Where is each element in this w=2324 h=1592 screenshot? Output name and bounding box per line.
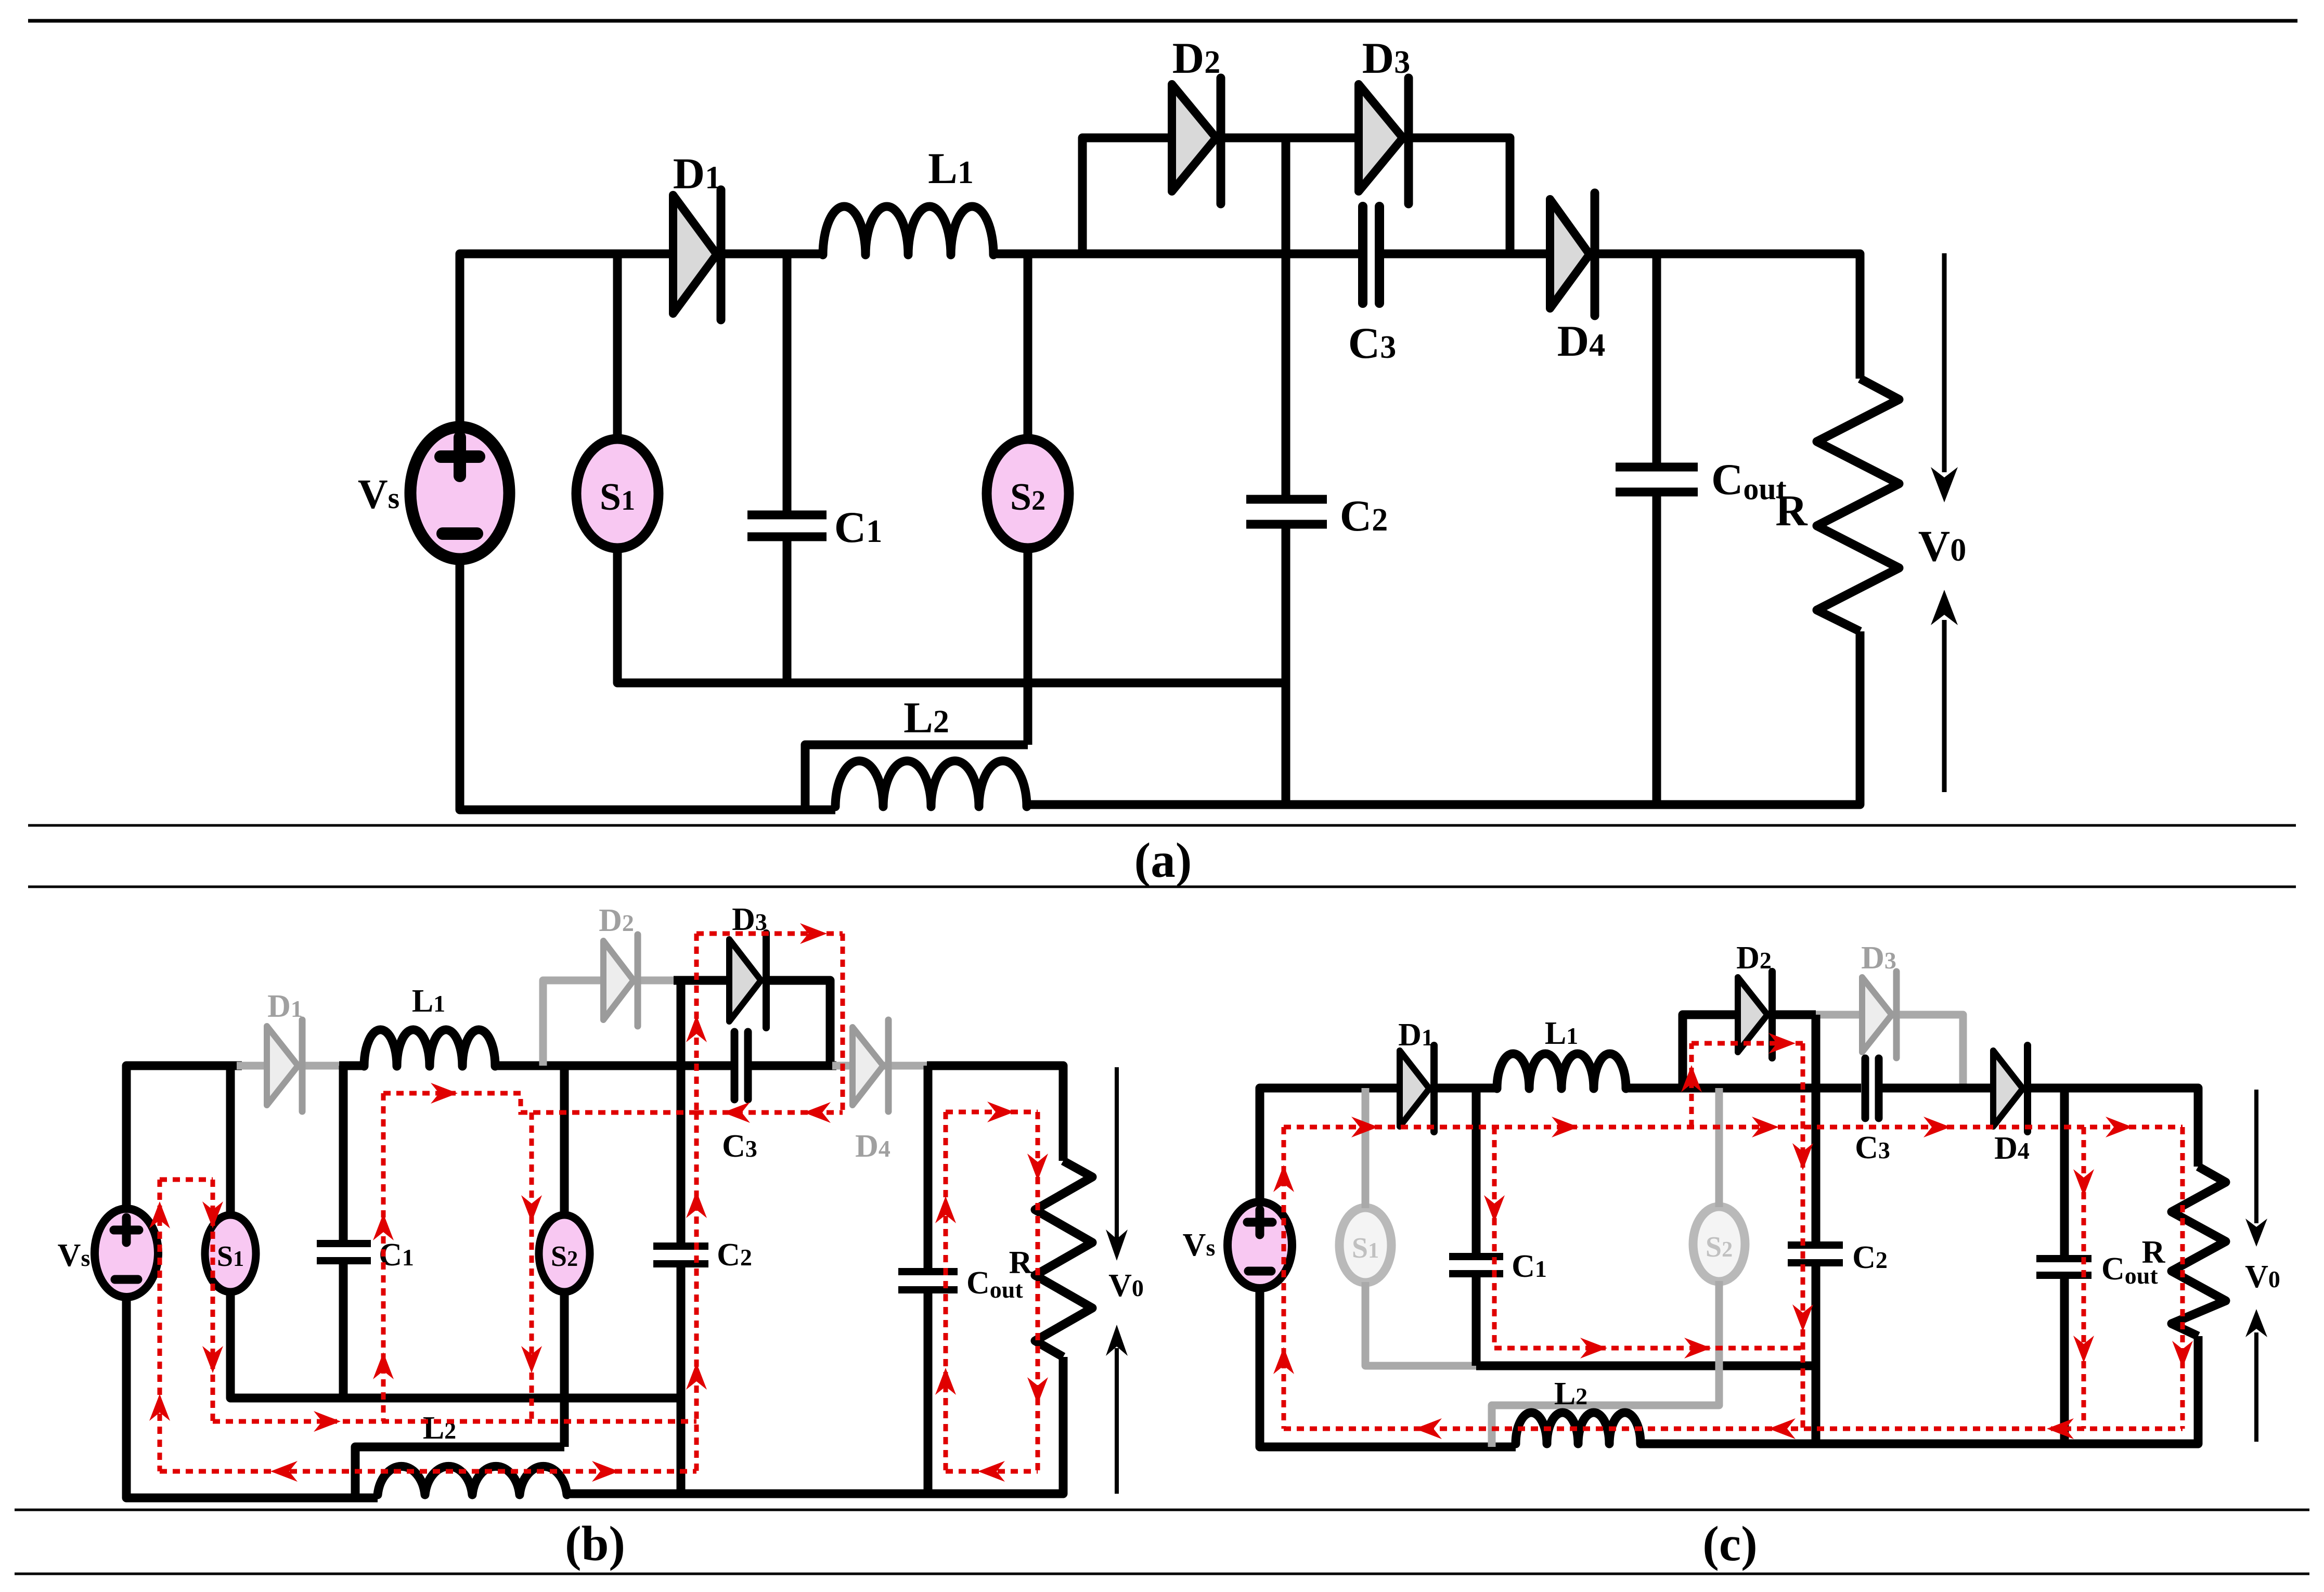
- red output loop left: [944, 1112, 948, 1471]
- red C2 vertical: [1801, 1043, 1805, 1429]
- source Vs: [410, 427, 509, 559]
- red arrow up on output left lower: [935, 1368, 956, 1395]
- wire: Vs bottom to bottom rail to L2 start: [126, 1297, 378, 1498]
- source Vs: [1228, 1202, 1292, 1288]
- red arrow up on D2 loop: [1681, 1065, 1702, 1092]
- wire: L1 end to C3 left plate (junctions S2, riser1, C2): [993, 250, 1362, 258]
- wire: upper rail D3 to riser2 down to main rail: [1409, 138, 1510, 254]
- red arrow up on main left lower: [1273, 1347, 1294, 1374]
- red arrow right under L1: [431, 1083, 458, 1104]
- red L1 return horizontal: [383, 1093, 696, 1112]
- arrow V0 up: [2245, 1309, 2267, 1442]
- red arrow left on main bottom 2: [1768, 1418, 1796, 1439]
- svg-text:(a): (a): [1134, 833, 1192, 888]
- red arrow down on Cout red upper: [2073, 1169, 2094, 1196]
- separator rule below b/c: [15, 1509, 2309, 1511]
- red D3 loop right vertical: [841, 934, 845, 1112]
- red output loop bottom: [946, 1469, 1038, 1474]
- wire: upper rail D3 to corner riser: [766, 980, 830, 1066]
- wire: upper rail black D3 segment: [674, 976, 730, 985]
- red arrow left on main bottom 3: [2047, 1418, 2074, 1439]
- capacitor C2: [1246, 138, 1327, 805]
- wire: Vs bottom to bottom-left rail to L2 coil start: [460, 559, 835, 810]
- red arrow right on D2 top: [1768, 1033, 1796, 1054]
- switch S2: [987, 439, 1069, 548]
- capacitor Cout: [898, 1066, 958, 1494]
- separator rule below circuit a: [28, 824, 2296, 827]
- wire: bottom rail L2 to R corner: [1639, 1336, 2198, 1444]
- wire (gray): S2 riser: [1715, 1088, 1723, 1207]
- red arrow right on output top: [987, 1102, 1014, 1122]
- red arrow up on Vs side: [149, 1201, 170, 1228]
- switch S1: [205, 1215, 256, 1292]
- diode D2: [1738, 972, 1772, 1058]
- red loop C1-S2 left side: [381, 1093, 386, 1421]
- red arrow right on main top 4: [1923, 1117, 1951, 1137]
- red mid horizontal below mid rail: [213, 1419, 696, 1424]
- wire: upper rail D2 to D3: [1221, 134, 1360, 143]
- resistor R: [1035, 1161, 1092, 1357]
- wire (gray): upper rail through D3 to corner riser: [1816, 1015, 1963, 1088]
- red arrow left on output bottom: [978, 1461, 1005, 1482]
- red arrow up on C1 loop: [373, 1213, 394, 1240]
- wire (gray): S1 bottom to gray mid rail: [1365, 1282, 1478, 1366]
- separator rule above b/c: [28, 886, 2296, 888]
- red arrow right on main top 1: [1351, 1117, 1378, 1137]
- red C2 vertical: [694, 1112, 699, 1471]
- wire: C3 right plate to D4 anode: [1380, 250, 1549, 258]
- red arrow up on output left: [935, 1196, 956, 1223]
- red arrow right on inner bottom 2: [1684, 1338, 1711, 1358]
- capacitor C2: [1788, 1015, 1843, 1444]
- wire: top rail from Vs to D1 anode: [460, 254, 674, 428]
- red arrow down on S1 side: [202, 1201, 223, 1228]
- switch S2 gray: [1693, 1207, 1745, 1282]
- red arrow right on D3 top: [800, 923, 827, 944]
- capacitor C3 (series): [734, 1032, 748, 1099]
- diode D3: [1359, 78, 1409, 204]
- wire (gray) through D1: [237, 1062, 343, 1070]
- wire: L1 end to C3 left plate: [1626, 1084, 1861, 1093]
- diode D1: [1400, 1045, 1434, 1132]
- red loop Vs-S1 top: [160, 1177, 213, 1182]
- svg-text:R: R: [1775, 486, 1808, 535]
- red loop C1-S2 right side: [530, 1112, 534, 1421]
- wire (gray) through D4: [832, 1062, 931, 1070]
- arrow V0 up: [1106, 1325, 1128, 1494]
- red arrow right on bottom: [592, 1461, 619, 1482]
- arrow V0 down: [2245, 1090, 2267, 1247]
- wire: upper rail D2 bar to C2 riser corner: [1772, 1011, 1816, 1019]
- capacitor C2: [653, 980, 708, 1494]
- arrow V0 down: [1931, 253, 1958, 502]
- red Cout vertical: [2082, 1127, 2086, 1429]
- inductor L2: [1516, 1413, 1641, 1444]
- inductor L1: [823, 206, 993, 255]
- inductor L2: [378, 1466, 567, 1495]
- red arrow left on C3 return right: [804, 1102, 831, 1123]
- wire: bottom rail from L2 to R bottom corner: [1027, 631, 1860, 805]
- wire: S2 riser: [1024, 254, 1032, 441]
- red arrow up on C2 vertical lower: [686, 1363, 707, 1390]
- bottom rule line: [15, 1573, 2309, 1575]
- svg-text:R: R: [1009, 1245, 1033, 1280]
- red arrow left on bottom: [270, 1461, 298, 1482]
- red arrow down on S1 side lower: [202, 1346, 223, 1373]
- red arrow right on main top 5: [2106, 1117, 2133, 1137]
- wire: S1 bottom to mid rail to C2: [230, 1291, 681, 1398]
- resistor R: [1817, 379, 1899, 631]
- diode D4: [1550, 193, 1595, 316]
- capacitor C3 (series): [1363, 206, 1379, 303]
- red output loop right: [1036, 1112, 1040, 1471]
- wire (gray): S1 riser: [1362, 1088, 1370, 1208]
- red inner loop bottom: [1494, 1346, 1803, 1351]
- wire: bottom rail L2 to R corner: [567, 1357, 1063, 1494]
- wire: Vs bottom to bottom rail to L2 start: [1260, 1288, 1516, 1447]
- inductor L2: [835, 761, 1027, 807]
- wire: riser1 to upper rail and upper rail to D2: [1082, 138, 1173, 254]
- wire: black mid rail C1 to C2: [1476, 1362, 1816, 1370]
- diode D2 gray: [603, 935, 638, 1026]
- red arrow down on C2 red lower: [1792, 1304, 1813, 1331]
- capacitor Cout: [1616, 254, 1698, 805]
- wire: D4 to R top corner: [927, 1066, 1063, 1161]
- diode D3 gray: [1862, 972, 1896, 1058]
- source Vs: [95, 1209, 158, 1297]
- capacitor C3 (series): [1865, 1058, 1879, 1118]
- red arrow down on S2 loop lower: [521, 1346, 542, 1373]
- red arrow down on C2 red upper: [1792, 1143, 1813, 1170]
- wire: L2 step rail and drop to bottom rail: [805, 745, 1028, 810]
- red C3 return horizontal: [696, 1110, 843, 1115]
- red arrow down on S2 loop: [521, 1195, 542, 1222]
- red arrow up on C1 loop lower: [373, 1352, 394, 1379]
- wire: C3 right plate to D4: [1882, 1084, 1994, 1093]
- red arrow down on output right lower: [1027, 1377, 1048, 1404]
- wire (gray): S2 bottom to gray step rail and drop: [1492, 1281, 1719, 1447]
- red main loop right vertical: [2180, 1127, 2185, 1429]
- wire: S1 riser: [226, 1066, 235, 1215]
- wire: top rail Vs corner to D1: [1260, 1088, 1401, 1204]
- wire: C3 to D4 region: [751, 1062, 836, 1070]
- red main loop bottom horizontal: [1284, 1427, 2183, 1431]
- capacitor C1: [1449, 1088, 1503, 1366]
- wire: riser to upper rail through D2 to C2 riser: [1683, 1015, 1739, 1088]
- red arrow down on Cout red lower: [2073, 1336, 2094, 1363]
- wire: S1 riser from top rail: [613, 254, 622, 439]
- wire: rail to L1: [339, 1062, 365, 1070]
- capacitor C1: [747, 254, 827, 683]
- red arrow down on C1 red: [1484, 1195, 1505, 1222]
- red arrow down on output right: [1027, 1154, 1048, 1181]
- red arrow left on main bottom 1: [1415, 1418, 1442, 1439]
- switch S1: [576, 439, 659, 548]
- red arrow up on D3 loop: [686, 1015, 707, 1042]
- diode D2: [1172, 78, 1221, 204]
- diode D3: [729, 933, 766, 1028]
- wire: D1 cathode to L1 start: [719, 250, 823, 258]
- wire: D4 cathode to R top corner: [1593, 254, 1860, 379]
- arrow V0 down: [1106, 1067, 1128, 1261]
- red D3 loop top: [696, 931, 843, 936]
- wire: D4 to R top corner: [2028, 1088, 2198, 1167]
- red arrow up on Vs side lower: [149, 1394, 170, 1421]
- wire: D1 cathode to L1: [1434, 1084, 1498, 1093]
- red loop Vs-S1 right side: [211, 1180, 215, 1421]
- resistor R: [2172, 1167, 2226, 1336]
- wire: L2 step rail and drop: [355, 1447, 564, 1498]
- inductor L1: [1497, 1054, 1626, 1089]
- diode D1 gray: [267, 1020, 302, 1111]
- svg-text:(b): (b): [565, 1516, 625, 1571]
- red arrow right on inner bottom 1: [1580, 1338, 1607, 1358]
- capacitor Cout: [2036, 1088, 2091, 1444]
- wire: S2 bottom down to L2 step rail: [1024, 546, 1032, 745]
- switch S2: [539, 1215, 590, 1292]
- red arrow up on C2 vertical: [686, 1191, 707, 1218]
- red D2 loop top: [1692, 1041, 1803, 1046]
- red arrow right on mid horizontal: [314, 1411, 341, 1432]
- red inner loop C1 vertical: [1492, 1127, 1497, 1348]
- red arrow left on C3 return: [723, 1102, 750, 1123]
- wire: S2 riser: [560, 1066, 569, 1215]
- red arrow up on main left: [1273, 1165, 1294, 1192]
- svg-text:(c): (c): [1702, 1516, 1757, 1571]
- red arrow down on main right: [2172, 1341, 2193, 1368]
- capacitor C1: [317, 1066, 371, 1398]
- top rule line: [28, 19, 2297, 23]
- red loop Vs-S1 left side: [158, 1180, 162, 1471]
- wire: L1 end to C3 left plate: [495, 1062, 731, 1070]
- red arrow right on main top 2: [1552, 1117, 1579, 1137]
- diode D4: [1993, 1045, 2028, 1132]
- svg-text:R: R: [2142, 1235, 2166, 1270]
- inductor L1: [364, 1030, 495, 1066]
- red arrow right on main top 3: [1752, 1117, 1779, 1137]
- diode D4 gray: [853, 1020, 888, 1111]
- arrow V0 up: [1931, 590, 1958, 792]
- wire (gray): riser to upper rail through D2: [543, 980, 679, 1066]
- red output loop top: [946, 1110, 1038, 1115]
- red main loop left vertical: [1282, 1127, 1286, 1429]
- red D2 loop left vertical: [1689, 1043, 1694, 1127]
- wire: S2 bottom through mid rail to step rail: [560, 1292, 569, 1447]
- red D3 loop left vertical: [694, 934, 699, 1112]
- diode D1: [673, 190, 721, 320]
- wire: top rail Vs corner to D1 anode area: [126, 1066, 242, 1209]
- red main loop top horizontal: [1284, 1125, 2183, 1130]
- switch S1 gray: [1339, 1208, 1391, 1283]
- wire: S1 bottom to mid rail and mid rail to C2: [617, 548, 1286, 683]
- red bottom horizontal: [160, 1469, 696, 1474]
